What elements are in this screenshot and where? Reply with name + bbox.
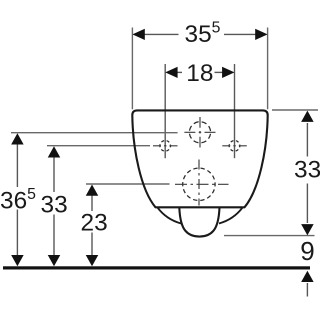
- trap outlet U: [179, 207, 219, 236]
- extension line 23 (outlet height): [86, 183, 170, 185]
- dimension 33 right vertical: [306, 123, 308, 223]
- hole right circle (dashed): [229, 141, 240, 152]
- dimension 18 line: [178, 71, 223, 73]
- extension line 33 left (hole height): [47, 145, 150, 147]
- dimension 18 arrows: [165, 67, 234, 78]
- dimension 36.5 vertical: [16, 144, 18, 256]
- extension/centre line hole left: [164, 64, 166, 158]
- dimension 23 vertical: [91, 196, 93, 257]
- hole left circle (dashed): [160, 141, 171, 152]
- hole right crosshair: [222, 145, 247, 147]
- ground line: [3, 266, 310, 269]
- extension/centre line hole right: [234, 64, 236, 158]
- outlet crosshair horizontal: [175, 183, 229, 185]
- dimension 35.5 line: [144, 33, 256, 35]
- svg-text:18: 18: [186, 60, 213, 87]
- bowl bottom arc left: [158, 208, 182, 224]
- supply crosshair horizontal: [184, 131, 215, 133]
- WC body outline: [132, 110, 267, 207]
- extension line 35.5 left: [131, 28, 133, 110]
- bowl bottom arc right: [219, 208, 243, 224]
- outlet circle (dashed): [183, 168, 215, 200]
- extension line 33 right (body top): [272, 109, 318, 111]
- supply crosshair vertical: [199, 117, 201, 148]
- supply circle (dashed): [189, 122, 210, 143]
- svg-text:23: 23: [81, 210, 108, 237]
- extension line 36.5 (supply height): [11, 132, 178, 134]
- dimension 33 left vertical: [53, 157, 55, 256]
- extension line 9 (trap bottom): [224, 235, 315, 237]
- arrow up to ground: [301, 271, 314, 282]
- svg-text:33: 33: [294, 157, 320, 184]
- svg-text:33: 33: [41, 191, 68, 218]
- svg-text:9: 9: [300, 236, 314, 266]
- dimension 35.5 arrows: [132, 29, 267, 40]
- hole left crosshair: [153, 145, 178, 147]
- dimension 9 below ground: [306, 283, 308, 297]
- outlet crosshair vertical: [198, 160, 200, 206]
- extension line 35.5 right: [267, 28, 269, 110]
